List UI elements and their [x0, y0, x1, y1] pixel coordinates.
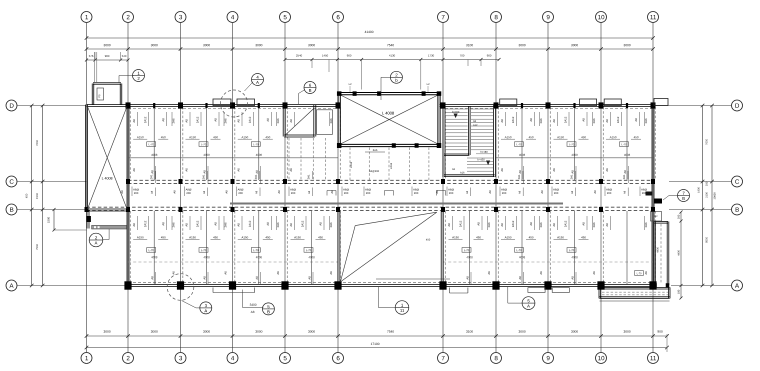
- room annotations lower x522: [501, 216, 536, 284]
- column grid5/B: [283, 207, 287, 212]
- slab line upper rooms: [128, 157, 654, 159]
- parapet bump 579.5: [580, 99, 597, 106]
- wall D edge west: [87, 105, 339, 107]
- notch below A grid4: [213, 288, 255, 293]
- room annotations upper x522: [501, 112, 536, 183]
- corridor annotation grid8: [489, 187, 507, 197]
- grid line B: [17, 209, 732, 211]
- column hall bottom x393.8: [392, 143, 396, 148]
- column grid3/C: [179, 179, 183, 184]
- grid bubble 3 top: [175, 12, 186, 23]
- wall dash at grid 3: [182, 107, 184, 283]
- column grid7/A: [439, 281, 446, 289]
- column grid4/C: [231, 179, 235, 184]
- beam mark above C x206.5: [203, 171, 208, 179]
- hall lower band: [350, 148, 429, 181]
- wall dash at grid 11: [654, 107, 656, 283]
- corridor annotation grid6: [331, 187, 349, 197]
- column grid8/C: [494, 179, 498, 184]
- top segment dims: [104, 44, 631, 46]
- wall dash at grid 4: [234, 107, 236, 283]
- parapet bump 499.7: [500, 99, 517, 106]
- column grid11/C: [651, 179, 655, 184]
- corridor brackets hall bay: [327, 191, 446, 196]
- column grid9/C: [546, 179, 550, 184]
- right wing junction columns: [653, 283, 669, 288]
- column grid9/B: [546, 207, 550, 212]
- room annotations lower x154.2: [133, 216, 168, 284]
- central hall walls and X-brace: [338, 93, 440, 147]
- grid bubble C left: [6, 176, 17, 187]
- grid bubble 2 top: [123, 12, 134, 23]
- corridor annotation grid9: [541, 187, 559, 197]
- room annotations upper x627: [606, 112, 641, 183]
- rebar marks grid3: [172, 112, 190, 275]
- column grid6/B: [336, 207, 340, 212]
- column grid6/D: [336, 102, 341, 108]
- wall dash at grid 2: [129, 107, 131, 283]
- dimension line right outer: [710, 104, 715, 288]
- column grid5/D: [283, 102, 288, 108]
- column hall top x379.1: [377, 91, 381, 96]
- grid line 9: [547, 23, 549, 353]
- slab dash line B: [87, 207, 654, 210]
- parapet bump 604.2: [604, 99, 621, 106]
- right wing strip: [651, 212, 669, 286]
- room annotations upper x574.5: [554, 112, 589, 183]
- grid bubble 10 top: [596, 12, 607, 23]
- rebar marks grid2: [133, 112, 137, 230]
- beam tick D x574.5: [573, 103, 575, 108]
- grid bubble 10 bottom: [596, 353, 607, 364]
- grid bubble C right: [732, 176, 743, 187]
- beam mark above C x311.5: [308, 171, 313, 179]
- beam line upper x522: [521, 107, 523, 180]
- grid line 5: [284, 23, 286, 353]
- grid bubble 5 top: [280, 12, 291, 23]
- beam tick D x258.8: [258, 103, 260, 108]
- column grid4/A: [229, 281, 236, 289]
- grid line 7: [442, 23, 444, 353]
- wall B bay1: [86, 209, 129, 211]
- room annotations lower x206.5: [186, 216, 221, 284]
- parapet bump 237: [237, 99, 255, 106]
- column grid10/D: [599, 102, 604, 108]
- bubble 6/B: [299, 82, 317, 105]
- grid bubble 2 bottom: [123, 353, 134, 364]
- wall dash at grid 8: [497, 107, 499, 283]
- grid bubble 6 bottom: [333, 353, 344, 364]
- wall D edge east: [439, 105, 653, 107]
- slab dash lower rooms: [128, 261, 653, 263]
- rebar marks grid11: [645, 112, 648, 275]
- grid bubble 7 bottom: [438, 353, 449, 364]
- corridor annotation hall bay: [364, 187, 419, 197]
- grid bubble 9 top: [543, 12, 554, 23]
- dimension line bottom segments: [85, 330, 669, 337]
- canopy: [92, 52, 122, 105]
- sub-dimension top-middle: [284, 55, 501, 90]
- bubble 2/B hall: [381, 71, 402, 100]
- hall corner columns: [337, 91, 441, 148]
- sub-dimension left steps: [48, 208, 87, 232]
- grid line 6: [337, 23, 339, 353]
- column grid9/A: [544, 281, 551, 289]
- X-brace bay1-2: [88, 107, 128, 210]
- bubble 2/A: [89, 229, 109, 247]
- grid bubble 9 bottom: [543, 353, 554, 364]
- bubble 4/A: [245, 74, 264, 92]
- corridor mid mark x574.5: [571, 188, 576, 197]
- corridor mid mark x469.5: [466, 188, 471, 197]
- column grid3/B: [179, 207, 183, 212]
- grid bubble 3 bottom: [175, 353, 186, 364]
- wall dash at grid 6: [339, 107, 341, 283]
- grid bubble A right: [732, 280, 743, 291]
- column grid10/C: [599, 179, 603, 184]
- column grid1/B: [85, 207, 89, 212]
- L-box right wing: [635, 271, 644, 276]
- beam tick D x206.5: [205, 103, 207, 108]
- column hall top x423.6: [422, 91, 426, 96]
- parapet bump 213: [213, 99, 231, 106]
- rebar marks grid4: [224, 112, 242, 275]
- grid bubble 11 top: [648, 12, 659, 23]
- beam mark above C x627: [623, 171, 628, 179]
- beam tick D x522: [521, 103, 523, 108]
- beam mark above C x154.2: [150, 171, 155, 179]
- corridor annotation grid2: [121, 187, 139, 197]
- wall grid11 east: [652, 105, 654, 287]
- wall dash at grid 5: [286, 107, 288, 283]
- column grid8/D: [494, 102, 499, 108]
- corridor annotation grid3: [174, 187, 192, 197]
- rebar marks grid10: [593, 112, 611, 275]
- bubble below A 8-9: [508, 287, 535, 310]
- bubble 5/B: [243, 290, 275, 315]
- corridor mid mark x311.5: [308, 188, 313, 197]
- column grid4/D: [230, 102, 235, 108]
- corridor mid mark x206.5: [203, 188, 208, 197]
- dimension line top segments: [85, 47, 655, 51]
- corner marks grid11/B: [646, 192, 663, 204]
- beam line lower x206.5: [206, 211, 208, 284]
- corridor annotation grid5: [278, 187, 296, 197]
- grid line 11: [652, 23, 654, 353]
- grid bubble 1 top: [81, 12, 92, 23]
- dimension line top overall: [85, 31, 655, 40]
- grid line C: [17, 181, 732, 183]
- grid bubble 8 top: [491, 12, 502, 23]
- dimension line right inner: [698, 104, 708, 288]
- column grid2/C: [126, 179, 130, 184]
- rebar marks grid9: [540, 112, 558, 275]
- box below A grid8-9: [528, 288, 570, 293]
- grid bubble 5 bottom: [280, 353, 291, 364]
- bubble 3/A: [182, 301, 212, 314]
- column grid5/A: [281, 281, 288, 289]
- bubble 1/2 canopy: [119, 70, 145, 84]
- grid line A: [17, 285, 732, 287]
- wall dash at grid 7: [444, 107, 446, 283]
- column grid2/A: [124, 281, 131, 289]
- column grid2/D: [126, 102, 131, 108]
- stair block bay7-8: [443, 105, 496, 177]
- rebar marks grid6: [330, 112, 333, 275]
- beam line lower x258.8: [258, 211, 260, 284]
- grid bubble 4 bottom: [227, 353, 238, 364]
- beam tick D x627: [626, 103, 628, 108]
- corridor mid mark x258.8: [255, 188, 260, 197]
- room annotations upper x154.2: [133, 112, 168, 183]
- room annotations upper x206.5: [186, 112, 221, 183]
- column grid3/A: [177, 281, 184, 289]
- corridor annotation grid7: [436, 187, 454, 197]
- rebar marks grid5: [277, 112, 295, 275]
- beam tick D x154.2: [153, 103, 155, 108]
- dimension line bottom overall: [85, 334, 669, 352]
- dimension line left inner: [36, 104, 44, 288]
- slab dash below D: [128, 107, 653, 109]
- grid line 10: [600, 23, 602, 353]
- room annotations upper x258.8: [238, 112, 273, 183]
- corridor annotation grid10: [594, 187, 612, 197]
- wall grid2: [127, 105, 129, 287]
- beam line upper x258.8: [258, 107, 260, 180]
- column grid7/C: [441, 179, 445, 184]
- beam line lower x154.2: [153, 211, 155, 284]
- room annotations lower x469.5: [449, 216, 484, 284]
- entrance beam: [92, 225, 127, 229]
- right wing bottom box: [599, 287, 670, 301]
- grid bubble D right: [732, 100, 743, 111]
- wall dash at grid 10: [602, 107, 604, 283]
- hall top labels: [349, 83, 430, 92]
- beam line lower x522: [521, 211, 523, 284]
- bubble 7/B right: [663, 190, 690, 202]
- slab dash line C: [128, 180, 653, 183]
- column grid5/C: [283, 179, 287, 184]
- parapet bump right of grid11: [654, 99, 668, 106]
- column grid3/D: [178, 102, 183, 108]
- corridor mid mark x627: [624, 188, 629, 197]
- grid bubble 6 top: [333, 12, 344, 23]
- column grid7/B: [441, 207, 445, 212]
- beam line upper x574.5: [574, 107, 576, 180]
- wall dash at grid 9: [549, 107, 551, 283]
- column hall top x354.6: [353, 91, 357, 96]
- beam line upper x627: [626, 107, 628, 180]
- beam mark above C x258.8: [255, 171, 260, 179]
- dashed detail circle grid4/D: [221, 90, 248, 117]
- corridor annotation grid4: [226, 187, 244, 197]
- grid bubble D left: [6, 100, 17, 111]
- beam line lower x574.5: [574, 211, 576, 284]
- grid bubble B right: [732, 204, 743, 215]
- beam line upper x154.2: [153, 107, 155, 180]
- wall grid1 below B: [86, 210, 91, 229]
- room annotations lower x574.5: [554, 216, 589, 284]
- bubble below wedge: [378, 287, 408, 314]
- grid bubble 7 top: [438, 12, 449, 23]
- sub-dimension top-left: [85, 52, 130, 62]
- beam line lower x627: [626, 211, 628, 284]
- slab dash above A: [128, 282, 653, 284]
- column grid10/B: [599, 207, 603, 212]
- column grid7/D: [441, 102, 446, 108]
- column grid10/A: [597, 281, 604, 289]
- column grid9/D: [546, 102, 551, 108]
- column grid2/B: [126, 207, 130, 212]
- grid bubble 8 bottom: [491, 353, 502, 364]
- column grid8/B: [494, 207, 498, 212]
- wedge ramp bay6-7: [338, 211, 450, 285]
- column hall bottom x416.6: [415, 143, 419, 148]
- grid line 1: [86, 23, 88, 353]
- grid bubble 1 bottom: [81, 353, 92, 364]
- corridor beam edge: [230, 203, 563, 205]
- wall A edge: [127, 285, 654, 287]
- column grid11/D: [651, 102, 656, 108]
- grid bubble B left: [6, 204, 17, 215]
- room annotations lower x258.8: [238, 216, 273, 284]
- column grid6/A: [334, 281, 341, 289]
- grid line 2: [127, 23, 129, 353]
- grid bubble 4 top: [227, 12, 238, 23]
- notch below A grid7-8: [450, 288, 468, 294]
- corridor mid mark x522: [519, 188, 524, 197]
- beam mark above C x574.5: [571, 171, 576, 179]
- sloped room bay5-6: [283, 105, 332, 180]
- column grid11/A: [649, 281, 656, 289]
- column grid8/A: [492, 281, 499, 289]
- dimension line left outer: [26, 104, 34, 288]
- column grid11/B: [651, 207, 655, 212]
- grid line 8: [495, 23, 497, 353]
- beam line lower x311.5: [311, 211, 313, 284]
- grid bubble A left: [6, 280, 17, 291]
- sub-dimension right: [678, 211, 683, 300]
- rebar marks grid7: [448, 216, 452, 230]
- dashed detail circle grid3/A: [167, 274, 194, 301]
- wall grid1 west: [86, 105, 88, 211]
- beam mark above C x522: [518, 171, 523, 179]
- room annotations lower x311.5: [291, 216, 326, 284]
- corridor mid mark x154.2: [151, 188, 156, 197]
- column grid6/C: [336, 179, 340, 184]
- beam line upper x206.5: [206, 107, 208, 180]
- beam line lower x469.5: [469, 211, 471, 284]
- grid line 4: [232, 23, 234, 353]
- grid line 3: [180, 23, 182, 353]
- grid bubble 11 bottom: [648, 353, 659, 364]
- rebar marks grid8: [488, 112, 506, 275]
- grid line D: [17, 105, 732, 107]
- column grid4/B: [231, 207, 235, 212]
- corridor annotation grid11: [640, 187, 647, 197]
